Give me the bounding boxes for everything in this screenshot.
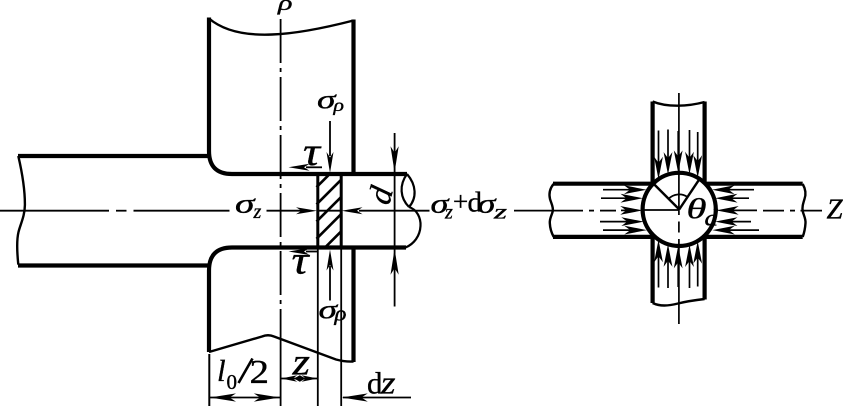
dz dimension arrow shaft	[343, 397, 411, 399]
arrow L3	[621, 209, 628, 211]
svg-text:ρ: ρ	[277, 0, 293, 15]
sigma_rho top arrow shaft	[329, 121, 331, 156]
svg-text:τ: τ	[303, 129, 322, 174]
arrow L4	[600, 221, 629, 223]
svg-text:Z: Z	[827, 194, 844, 226]
stress element right edge	[340, 175, 343, 247]
tau bottom arrowhead	[289, 248, 310, 255]
arrow L2	[601, 197, 628, 199]
die plate left edge upper + entry fillet + bore top line	[209, 18, 407, 175]
dz arrowhead	[342, 393, 368, 401]
arrow T5	[697, 132, 699, 163]
sigma_z arrowhead	[296, 207, 317, 214]
horizontal centerline to Z	[763, 210, 784, 212]
theta_d angle arc	[669, 194, 688, 199]
sigma_rho bottom arrow shaft	[329, 266, 331, 301]
horizontal rod top edge	[553, 182, 803, 186]
z dim centre diamond	[294, 375, 306, 382]
arrow R2	[730, 197, 749, 199]
arrow T2	[667, 130, 669, 160]
d dim bottom arrowhead	[391, 249, 399, 275]
d dimension line	[394, 133, 396, 307]
arrow R1	[727, 189, 754, 191]
vertical rod left edge	[650, 102, 654, 304]
horizontal rod right break	[802, 184, 805, 237]
horizontal rod bottom edge	[553, 235, 803, 239]
horizontal centerline right figure (left of circle)	[514, 210, 583, 212]
l0/2 dimension line	[210, 397, 281, 399]
die plate left edge lower + exit fillet + bore bottom line	[209, 248, 406, 353]
horizontal rod left break	[549, 184, 553, 237]
arrow B2	[667, 259, 669, 288]
horizontal axis centerline dash 2	[134, 210, 230, 212]
arrow B4	[689, 260, 691, 288]
rod top edge (left of die)	[18, 154, 211, 158]
l0/2 right arrowhead	[254, 393, 280, 401]
vertical rod bottom break	[653, 299, 705, 306]
z dim left arrowhead	[281, 375, 297, 381]
svg-text:+: +	[453, 187, 468, 217]
svg-text:z: z	[492, 202, 507, 224]
svg-text:z: z	[380, 366, 396, 402]
arrow B1	[658, 255, 660, 288]
radius line up-left	[653, 183, 679, 209]
extension line element right	[340, 248, 342, 406]
circle element at crossing	[643, 173, 716, 246]
z dim right arrowhead	[302, 375, 318, 381]
sigma_rho top arrowhead	[327, 152, 334, 173]
die plate right edge lower	[351, 249, 355, 362]
rod bottom edge (left of die)	[18, 263, 211, 267]
sigma_z+dsigma_z arrowhead	[342, 207, 363, 214]
distributed load arrows, left group (pointing right)	[600, 190, 632, 230]
horizontal axis centerline dash 1	[0, 210, 109, 212]
svg-text:z: z	[291, 342, 310, 384]
l0/2 left arrowhead	[210, 393, 236, 401]
d dim top arrowhead	[391, 146, 399, 172]
z dimension line	[281, 378, 318, 380]
svg-text:l: l	[217, 353, 226, 388]
arrow B3	[677, 261, 679, 287]
die plate bottom break wavy edge	[209, 335, 354, 361]
rod right break line	[402, 174, 409, 207]
centerline under element	[318, 210, 341, 212]
rho axis extension (dimension region)	[280, 352, 282, 406]
labels, left figure	[217, 0, 507, 402]
distributed load arrows, top group (pointing down)	[659, 130, 698, 165]
rho axis vertical centerline	[280, 19, 282, 352]
svg-text:d: d	[705, 206, 719, 231]
arrow L5	[603, 229, 632, 231]
arrow T4	[689, 130, 691, 159]
horizontal centerline inside circle	[643, 209, 679, 211]
svg-text:τ: τ	[292, 238, 311, 283]
arrow R3	[731, 209, 757, 211]
arrow T1	[658, 131, 660, 165]
vertical centerline right figure	[678, 93, 680, 215]
die plate top break wavy edge	[209, 19, 354, 35]
tau top arrow shaft	[306, 166, 322, 168]
arrowheads, left figure	[210, 146, 399, 401]
arrow L1	[603, 189, 631, 191]
extension line element left	[317, 248, 319, 406]
svg-text:θ: θ	[687, 193, 707, 225]
svg-text:z: z	[444, 202, 453, 224]
stress element hatching	[317, 175, 342, 247]
rod left break line	[17, 156, 25, 265]
tau top arrowhead	[289, 164, 310, 171]
die plate right edge upper	[351, 20, 355, 173]
vertical rod right edge	[702, 102, 706, 300]
distributed load arrows, bottom group (pointing up)	[659, 255, 698, 288]
sigma_z arrow shaft	[267, 210, 303, 212]
extension line die left face	[208, 354, 210, 406]
arrow B5	[697, 256, 699, 286]
arrow R5	[727, 229, 759, 231]
radius line up-right	[679, 178, 700, 210]
sigma_rho bottom arrowhead	[327, 250, 334, 271]
tau bottom arrow shaft	[306, 251, 319, 253]
svg-text:2: 2	[250, 354, 270, 391]
sigma_z+dsigma_z arrow shaft	[359, 210, 430, 212]
svg-text:z: z	[253, 201, 262, 223]
distributed load arrows, right group (pointing left)	[727, 190, 759, 230]
vertical rod top break	[653, 102, 705, 106]
svg-text:ρ: ρ	[332, 95, 344, 115]
stress element left edge	[316, 175, 319, 247]
svg-text:ρ: ρ	[333, 301, 346, 326]
svg-text:0: 0	[227, 370, 238, 394]
arrow R4	[730, 221, 751, 223]
horizontal axis centerline dot	[116, 210, 127, 212]
arrow T3	[677, 131, 679, 158]
